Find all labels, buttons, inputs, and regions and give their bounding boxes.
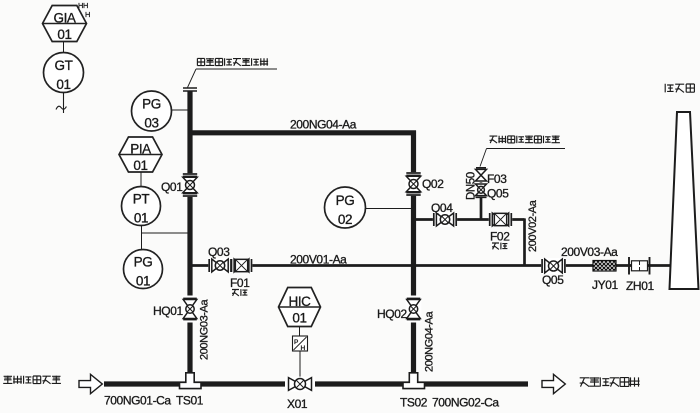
svg-text:H: H: [301, 345, 306, 352]
leader line reserved-port note: [188, 69, 197, 88]
svg-text:Q05: Q05: [487, 187, 509, 201]
wire instrument tap to riser 1: [142, 232, 189, 234]
svg-text:F02: F02: [490, 230, 510, 244]
wire riser 2 (200NG04 vertical) at x=413.5: [411, 131, 416, 375]
svg-text:700NG02-Ca: 700NG02-Ca: [432, 396, 499, 410]
svg-text:200V01-Aa: 200V01-Aa: [290, 253, 347, 267]
svg-text:01: 01: [136, 274, 150, 289]
valve Q02 (ball, riser 2): [405, 172, 421, 196]
wire 200V01-Aa line to vent stack: [190, 264, 670, 267]
wire main inlet header 700NG01/700NG02 (bottom): [104, 381, 528, 386]
wire converter to valve X01: [299, 351, 301, 380]
valve FO1 (bidirectional): [231, 258, 253, 273]
note text 吹扫口法兰盖封堵: [490, 136, 498, 143]
svg-text:Q05: Q05: [542, 273, 564, 287]
svg-text:200NG04-Aa: 200NG04-Aa: [290, 118, 357, 132]
wire 200NG04-Aa top header: [188, 130, 416, 135]
svg-text:200NG04-Aa: 200NG04-Aa: [424, 311, 436, 372]
svg-text:DN50: DN50: [466, 172, 478, 200]
wire HIC to converter: [299, 327, 301, 337]
instrument PG 01 (circle): [124, 250, 163, 289]
svg-text:Q02: Q02: [422, 177, 444, 191]
instrument GIA 01 (hexagon): [43, 6, 87, 42]
instrument PIA 01 (hexagon): [119, 137, 162, 172]
svg-text:X01: X01: [287, 397, 308, 411]
svg-text:200V03-Aa: 200V03-Aa: [561, 245, 618, 259]
leader line purge-port note: [480, 149, 487, 167]
wire GIA to GT link: [63, 42, 65, 54]
outlet flow arrow: [542, 374, 565, 393]
label 去严桥分输站: [580, 378, 590, 387]
svg-text:03: 03: [144, 116, 158, 131]
inlet flow arrow: [79, 374, 102, 393]
svg-text:PT: PT: [133, 192, 150, 207]
valve Q04 (ball): [433, 212, 457, 227]
instrument PG 03 (circle): [132, 91, 172, 131]
wire 200V02 drop leg: [523, 218, 526, 265]
wire PG02 tap: [366, 208, 412, 210]
svg-text:TS02: TS02: [400, 396, 428, 410]
label 盛桥阀室来气: [3, 376, 12, 384]
svg-text:GT: GT: [55, 58, 73, 73]
svg-text:200NG03-Aa: 200NG03-Aa: [199, 299, 211, 360]
wire GT signal tail with break: [56, 93, 66, 114]
wire 200V02 branch from riser 2: [414, 218, 525, 221]
svg-text:PIA: PIA: [130, 142, 151, 157]
valve FO3 (gate, purge stub): [475, 168, 488, 182]
svg-text:PG: PG: [336, 193, 355, 208]
svg-text:01: 01: [133, 158, 147, 173]
svg-text:ZH01: ZH01: [626, 279, 654, 293]
wire PT to PG01 link: [141, 226, 143, 250]
svg-text:01: 01: [57, 27, 71, 42]
svg-text:F03: F03: [487, 172, 507, 186]
svg-text:HQ01: HQ01: [153, 304, 183, 318]
svg-text:700NG01-Ca: 700NG01-Ca: [104, 394, 171, 408]
svg-text:GIA: GIA: [53, 11, 75, 26]
vent stack 放散管: [670, 112, 699, 289]
label 放散管: [665, 84, 673, 93]
svg-text:HIC: HIC: [288, 294, 311, 309]
svg-text:HQ02: HQ02: [377, 307, 407, 321]
svg-text:Q04: Q04: [431, 201, 453, 215]
instrument GT 01 (circle): [44, 53, 84, 93]
svg-text:01: 01: [56, 77, 70, 92]
svg-text:JY01: JY01: [592, 278, 618, 292]
svg-text:TS01: TS01: [176, 394, 204, 408]
svg-text:P: P: [294, 339, 298, 346]
control valve X01 (ball): [285, 377, 315, 392]
instrument PG 02 (circle): [325, 187, 366, 228]
svg-text:01: 01: [292, 311, 306, 326]
svg-text:01: 01: [134, 211, 148, 226]
wire PIA to PT link: [140, 172, 142, 187]
svg-text:PG: PG: [134, 255, 153, 270]
svg-text:PG: PG: [142, 97, 161, 112]
instrument PT 01 (circle): [122, 187, 161, 226]
tee TS01: [180, 373, 202, 389]
svg-text:Q03: Q03: [208, 245, 230, 259]
valve Q05 (ball, before vent): [541, 258, 566, 274]
insulating joint ZHD1: [628, 257, 630, 275]
wire PG03 tap: [170, 109, 188, 111]
instrument HIC 01 (hexagon): [279, 288, 321, 327]
flange blind cap on riser 1 top: [183, 87, 197, 89]
valve FO2 (bidirectional): [489, 212, 512, 227]
valve HQ01 (ball, riser 1): [182, 296, 198, 323]
P/H converter box: [293, 336, 308, 351]
svg-text:Q01: Q01: [161, 180, 183, 194]
wire riser 1 (200NG03) at x=190: [187, 91, 192, 375]
wire DN50 purge stub: [480, 168, 483, 220]
flange blind cap on DN50 purge stub: [476, 167, 486, 169]
svg-text:H: H: [85, 10, 90, 19]
valve Q03 (ball): [208, 258, 231, 273]
svg-text:200V02-Aa: 200V02-Aa: [527, 199, 539, 252]
valve HQ02 (ball, riser 2): [406, 296, 422, 323]
svg-text:02: 02: [338, 212, 352, 227]
valve Q01 (ball, riser 1): [182, 173, 198, 197]
tee TS02: [403, 373, 425, 389]
valve Q05 on purge stub (ball): [475, 183, 488, 197]
svg-text:F01: F01: [230, 276, 250, 290]
note text 预留口法兰盖封堵: [197, 58, 204, 65]
svg-text:HH: HH: [78, 1, 88, 10]
